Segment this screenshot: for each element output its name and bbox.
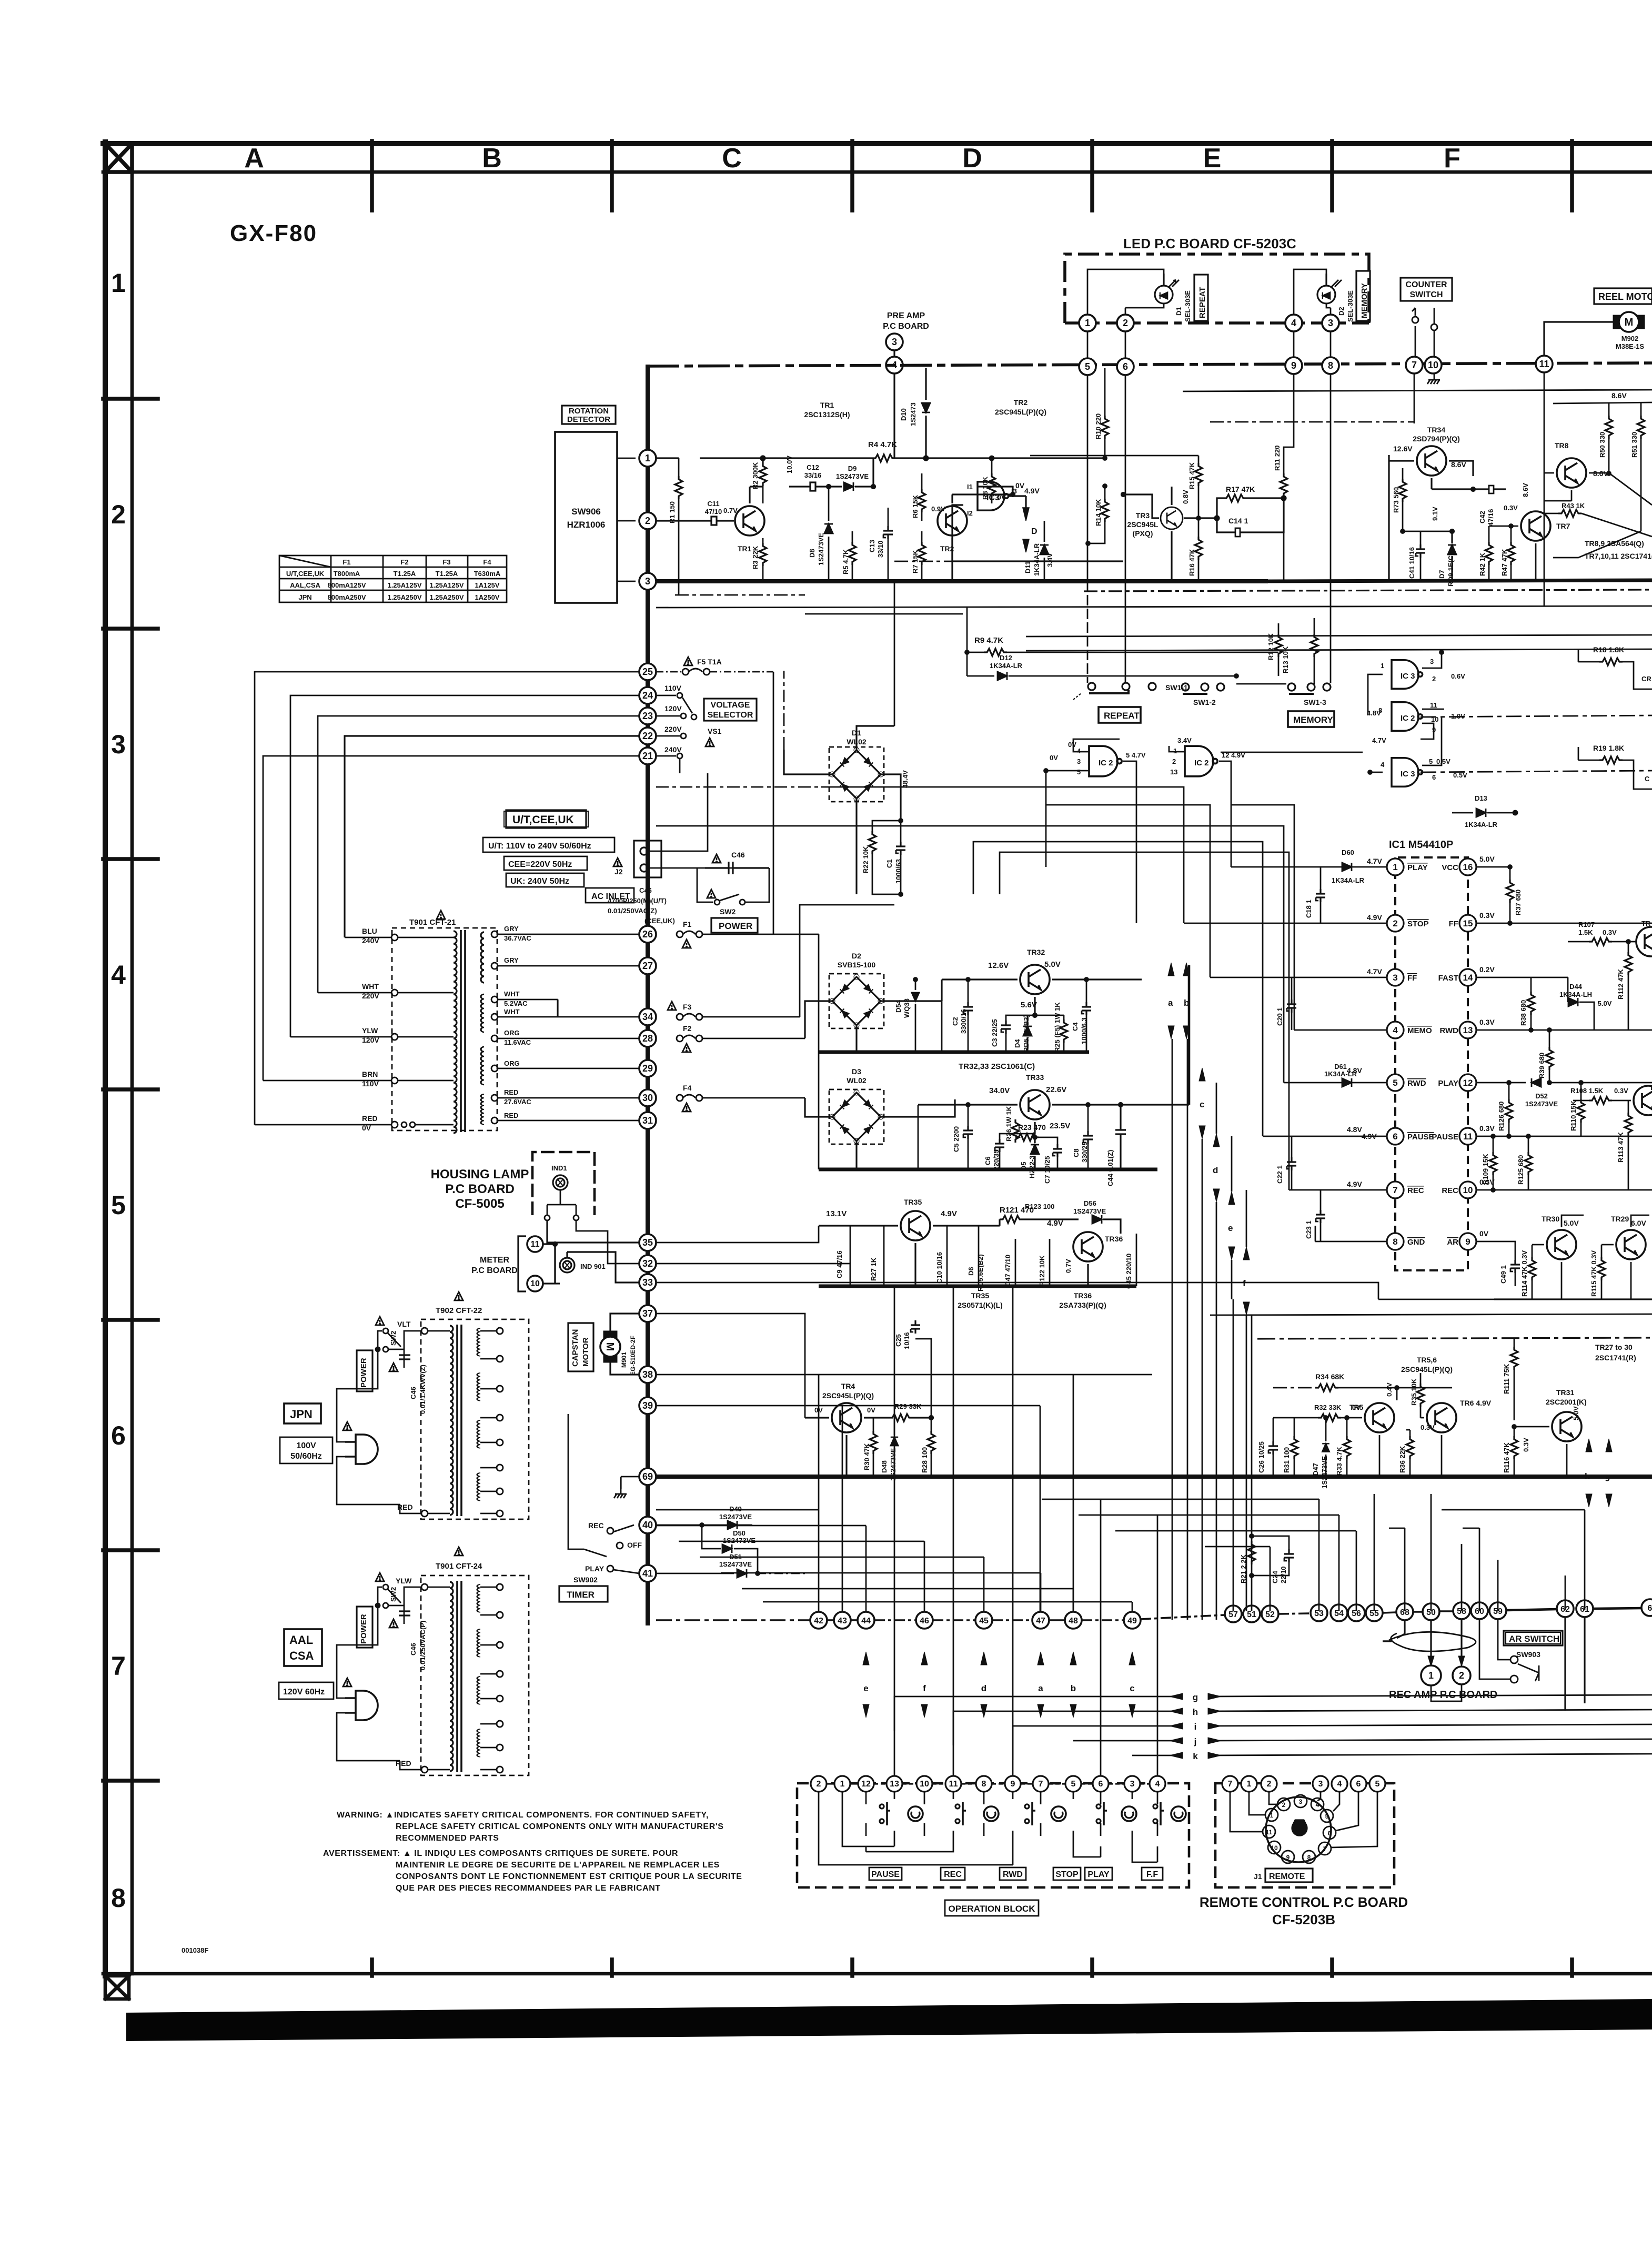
- svg-text:CSA: CSA: [289, 1649, 314, 1662]
- svg-text:30: 30: [642, 1093, 653, 1103]
- wire net b vertical: [1187, 1039, 1188, 1620]
- reel motor M902: [1613, 312, 1645, 332]
- svg-text:h: h: [1585, 1471, 1590, 1481]
- wire y2500: [1210, 1314, 1652, 1315]
- svg-text:29: 29: [642, 1063, 653, 1074]
- svg-text:TR7,10,11 2SC1741(R): TR7,10,11 2SC1741(R): [1585, 552, 1652, 560]
- svg-text:0.7V: 0.7V: [1064, 1259, 1072, 1273]
- IC1 inner pins: [1459, 859, 1476, 1250]
- svg-text:13: 13: [1463, 1025, 1473, 1035]
- svg-text:46: 46: [920, 1617, 929, 1625]
- svg-text:1K34A-LR: 1K34A-LR: [1324, 1070, 1357, 1078]
- svg-text:R15 47K: R15 47K: [1188, 462, 1196, 489]
- corner cross box bottom-left: [105, 1976, 129, 1999]
- svg-text:(PXQ): (PXQ): [1133, 529, 1153, 538]
- transistor TR36: [1073, 1232, 1103, 1261]
- svg-text:15: 15: [1463, 918, 1473, 928]
- capstan motor label box: [568, 1323, 593, 1371]
- svg-text:B: B: [482, 143, 502, 174]
- C13 33/10: [888, 508, 889, 526]
- C25 10/16: [911, 1320, 920, 1334]
- svg-text:CEE=220V 50Hz: CEE=220V 50Hz: [508, 860, 572, 869]
- svg-text:43: 43: [838, 1617, 847, 1625]
- C3 22/25: [1001, 1021, 1011, 1034]
- svg-text:f: f: [1243, 1278, 1246, 1288]
- svg-text:BLU: BLU: [362, 927, 377, 935]
- svg-text:8: 8: [1328, 360, 1333, 371]
- svg-text:4: 4: [1077, 747, 1081, 755]
- svg-text:1K34A-LR: 1K34A-LR: [1332, 876, 1365, 884]
- frame top inner: [103, 170, 1652, 174]
- svg-text:R12 10K: R12 10K: [1267, 633, 1275, 660]
- svg-text:WL02: WL02: [847, 1076, 867, 1085]
- wire IC2 out vertical 3: [1231, 805, 1232, 867]
- wire pin6 column down: [1125, 458, 1126, 683]
- wire motor to 11: [1544, 322, 1613, 356]
- svg-text:R32 33K: R32 33K: [1314, 1403, 1342, 1411]
- svg-text:TR36: TR36: [1105, 1235, 1123, 1243]
- R116 47K: [1510, 1436, 1518, 1459]
- svg-text:0.3V: 0.3V: [1614, 1087, 1628, 1095]
- svg-text:FF: FF: [1449, 920, 1458, 928]
- top bus dash-dot: [648, 363, 1652, 366]
- svg-text:R31 100: R31 100: [1283, 1447, 1291, 1473]
- svg-text:3: 3: [645, 576, 650, 587]
- svg-text:f: f: [923, 1683, 926, 1693]
- svg-text:1.25A125V: 1.25A125V: [387, 581, 421, 589]
- bridge D2 SVB15-100: [829, 974, 884, 1028]
- wire 37 feed: [656, 1314, 805, 1418]
- svg-text:CONPOSANTS DONT LE FONCTION: CONPOSANTS DONT LE FONCTIONNEMENT EST CR…: [396, 1872, 742, 1881]
- svg-text:R39 680: R39 680: [1538, 1053, 1546, 1078]
- svg-text:SW903: SW903: [1516, 1650, 1540, 1659]
- svg-text:CF-5005: CF-5005: [455, 1197, 504, 1211]
- svg-text:MEMO: MEMO: [1407, 1026, 1432, 1035]
- svg-text:DETECTOR: DETECTOR: [567, 415, 610, 424]
- svg-text:22: 22: [642, 731, 653, 741]
- svg-text:R113 47K: R113 47K: [1617, 1132, 1625, 1163]
- 12.6V 5.0V labels: [988, 960, 1061, 1009]
- svg-text:2: 2: [111, 500, 126, 529]
- svg-text:7: 7: [1039, 1780, 1043, 1789]
- svg-text:e: e: [1228, 1223, 1233, 1233]
- svg-text:D54: D54: [894, 999, 902, 1013]
- svg-text:C24: C24: [1271, 1570, 1279, 1583]
- svg-text:1: 1: [1393, 862, 1397, 872]
- svg-text:48: 48: [1069, 1617, 1078, 1625]
- C4 1000/6.3: [1082, 1002, 1091, 1015]
- svg-text:7: 7: [1323, 1845, 1327, 1853]
- svg-text:39: 39: [642, 1400, 653, 1411]
- svg-text:1K34A-LR: 1K34A-LR: [1465, 821, 1498, 829]
- svg-text:9: 9: [1291, 360, 1296, 371]
- svg-text:4.9V: 4.9V: [1367, 913, 1382, 922]
- AAL plug: [345, 1691, 378, 1720]
- svg-text:11: 11: [1266, 1829, 1273, 1836]
- svg-text:TR3: TR3: [1136, 511, 1150, 520]
- transistor TR7: [1521, 511, 1550, 541]
- svg-text:1.25A125V: 1.25A125V: [429, 581, 464, 589]
- wire y2470: [1494, 1298, 1652, 1300]
- svg-text:R47 47K: R47 47K: [1500, 549, 1508, 576]
- R108 1.5K TR28: [1589, 1097, 1612, 1104]
- svg-text:C25: C25: [894, 1334, 902, 1347]
- D52: [1532, 1078, 1541, 1087]
- node wire TR1 top: [679, 456, 894, 503]
- transistor TR35: [901, 1211, 930, 1240]
- svg-text:11: 11: [1463, 1132, 1473, 1142]
- POWER box: [711, 918, 758, 933]
- svg-text:GX-F80: GX-F80: [230, 220, 317, 246]
- row tick 5|6: [103, 1318, 158, 1322]
- svg-text:16: 16: [1463, 862, 1473, 872]
- column tick B|C: [610, 141, 614, 210]
- IC2 gate left1: [1089, 746, 1122, 776]
- svg-text:RD5.6E(B2): RD5.6E(B2): [1022, 1015, 1030, 1052]
- diodes D49 D50 D51: [656, 1523, 805, 1576]
- svg-text:5: 5: [1429, 758, 1433, 765]
- svg-text:R115 47K 0.3V: R115 47K 0.3V: [1590, 1250, 1598, 1297]
- SW1-2: [1182, 683, 1224, 694]
- svg-text:7: 7: [1228, 1780, 1233, 1789]
- wire vertical bundle op columns: [894, 1286, 1157, 1776]
- svg-text:D13: D13: [1475, 794, 1487, 802]
- svg-text:47/16: 47/16: [1487, 509, 1495, 526]
- svg-text:1: 1: [1428, 1670, 1434, 1681]
- SW1-1: [1073, 683, 1156, 700]
- svg-text:J1: J1: [1254, 1872, 1262, 1881]
- svg-text:32: 32: [642, 1258, 653, 1269]
- svg-text:33/16: 33/16: [804, 471, 822, 479]
- svg-text:1K34A-LR: 1K34A-LR: [990, 662, 1023, 670]
- svg-text:IC 3: IC 3: [1401, 770, 1415, 779]
- R22 10K vertical: [872, 819, 903, 832]
- svg-text:C3 22/25: C3 22/25: [991, 1019, 999, 1047]
- svg-text:4.9V: 4.9V: [941, 1209, 957, 1218]
- svg-text:F1: F1: [343, 558, 350, 566]
- svg-text:41: 41: [642, 1568, 653, 1579]
- svg-text:F5 T1A: F5 T1A: [697, 658, 722, 666]
- svg-text:T1.25A: T1.25A: [436, 570, 458, 578]
- svg-text:C49 1: C49 1: [1499, 1265, 1507, 1284]
- svg-text:R2 300K: R2 300K: [751, 462, 759, 489]
- IC1 right voltages: [1479, 855, 1495, 1238]
- svg-text:VOLTAGE: VOLTAGE: [711, 701, 750, 710]
- T902 terminals: [421, 1328, 503, 1517]
- corner cross box top-left: [105, 144, 132, 172]
- svg-text:11: 11: [1539, 359, 1549, 369]
- capstan wires: [610, 1314, 639, 1375]
- frame outer left: [103, 142, 108, 1976]
- op switch wires: [819, 1792, 1157, 1865]
- svg-text:k: k: [1193, 1751, 1198, 1761]
- R126 680: [1505, 1099, 1513, 1123]
- svg-text:VS1: VS1: [708, 727, 722, 735]
- R35 10K vert: [1417, 1384, 1424, 1407]
- svg-text:REPEAT: REPEAT: [1104, 711, 1140, 721]
- svg-text:TR7: TR7: [1556, 522, 1570, 530]
- svg-text:4: 4: [1337, 1780, 1342, 1789]
- push switches: [880, 1802, 890, 1825]
- svg-text:GRY: GRY: [504, 925, 519, 933]
- svg-text:D: D: [1031, 527, 1037, 536]
- svg-text:D2: D2: [1337, 307, 1345, 316]
- wire ic1 rec feed: [1000, 852, 1289, 1190]
- svg-text:SW2: SW2: [720, 907, 736, 916]
- svg-text:23: 23: [642, 711, 653, 721]
- svg-text:RWD: RWD: [1439, 1026, 1458, 1035]
- svg-text:a: a: [1168, 998, 1173, 1008]
- wires J2 to selector: [648, 773, 768, 868]
- svg-text:R10 220: R10 220: [1094, 413, 1102, 439]
- wire rail8: [656, 786, 819, 788]
- JPN plug: [345, 1435, 378, 1464]
- black bar bottom: [126, 1999, 1652, 2041]
- svg-text:9: 9: [1286, 1854, 1290, 1861]
- svg-text:C46: C46: [731, 851, 745, 859]
- svg-text:12 4.9V: 12 4.9V: [1222, 751, 1245, 759]
- svg-text:24: 24: [642, 690, 653, 701]
- svg-text:GND: GND: [1407, 1238, 1425, 1247]
- svg-text:3: 3: [1077, 758, 1081, 765]
- D8 vertical: [828, 487, 830, 581]
- wire net f vertical: [1246, 1190, 1247, 1247]
- meter pc board: [471, 1256, 518, 1275]
- svg-text:0.5V: 0.5V: [1436, 758, 1450, 765]
- svg-text:R34 68K: R34 68K: [1315, 1372, 1344, 1381]
- wire pin5 column down: [1087, 581, 1089, 683]
- D7 RD9.1E zener: [1448, 545, 1456, 554]
- svg-text:57: 57: [1228, 1610, 1238, 1619]
- svg-text:28: 28: [642, 1033, 653, 1044]
- R29 33K h: [889, 1414, 912, 1421]
- thick feed vertical a/b: [1188, 965, 1191, 1105]
- svg-text:1.25A250V: 1.25A250V: [429, 593, 464, 601]
- svg-text:6: 6: [1648, 1604, 1652, 1613]
- svg-text:STOP: STOP: [1407, 920, 1429, 928]
- svg-text:R73 560: R73 560: [1392, 487, 1400, 513]
- R7 15K vertical: [921, 531, 923, 542]
- svg-text:UK: 240V 50Hz: UK: 240V 50Hz: [510, 877, 569, 886]
- capstan motor M901: [600, 1331, 620, 1362]
- svg-text:1.0V: 1.0V: [1451, 712, 1465, 720]
- svg-text:6: 6: [1099, 1780, 1103, 1789]
- svg-text:10: 10: [530, 1279, 540, 1288]
- svg-text:220V: 220V: [664, 725, 682, 733]
- JPN power switch SW2: [345, 1328, 421, 1389]
- column tick F|G: [1570, 141, 1574, 210]
- twisted pair: [1383, 1619, 1476, 1652]
- TR1 type label: [804, 401, 850, 419]
- svg-text:a: a: [1038, 1683, 1043, 1693]
- svg-text:g: g: [1605, 1471, 1610, 1481]
- svg-text:R3 22K: R3 22K: [751, 546, 759, 569]
- transformer T901 warning tri: [437, 911, 445, 919]
- svg-text:RECOMMENDED PARTS: RECOMMENDED PARTS: [396, 1834, 499, 1843]
- svg-text:CAPSTAN: CAPSTAN: [571, 1329, 580, 1367]
- R9 4.7K: [965, 608, 984, 676]
- svg-text:PRE AMP: PRE AMP: [887, 311, 925, 320]
- svg-text:TR33: TR33: [1026, 1073, 1044, 1082]
- svg-text:F2: F2: [683, 1024, 692, 1033]
- svg-text:C26 10/25: C26 10/25: [1257, 1441, 1265, 1473]
- row tick 6|7: [103, 1548, 158, 1552]
- connector 4 preamp: [886, 357, 903, 373]
- svg-text:T901 CFT-24: T901 CFT-24: [436, 1562, 482, 1571]
- connector 11 meter: [527, 1236, 543, 1252]
- R23 470 horizontal: [1034, 1134, 1036, 1137]
- R50 330 vertical: [1608, 402, 1610, 416]
- svg-text:REC: REC: [1407, 1186, 1424, 1195]
- svg-text:R116 47K: R116 47K: [1503, 1442, 1510, 1473]
- ground sym at 69: [620, 1477, 621, 1489]
- svg-text:C5 2200: C5 2200: [952, 1126, 960, 1152]
- rotation detector label box: [562, 406, 616, 424]
- svg-text:R37 680: R37 680: [1514, 890, 1522, 915]
- TR29: [1616, 1230, 1646, 1259]
- wire 35 right: [656, 1226, 1526, 1573]
- svg-text:4: 4: [1316, 1801, 1319, 1809]
- transistor TR34: [1417, 446, 1446, 476]
- housing lamp board box: [532, 1152, 595, 1215]
- rotation detector SW906 box: [555, 432, 617, 603]
- svg-text:C46: C46: [409, 1387, 417, 1399]
- bottom tick F|G: [1570, 1960, 1574, 1976]
- svg-text:6: 6: [1393, 1132, 1397, 1142]
- wire ic1 rwd feed: [1136, 826, 1284, 1083]
- svg-text:C41 10/16: C41 10/16: [1408, 547, 1416, 579]
- svg-text:IC 2: IC 2: [1194, 759, 1209, 768]
- R37 680: [1509, 867, 1511, 880]
- svg-text:TR35: TR35: [904, 1198, 922, 1206]
- IC3 input wire: [952, 505, 1123, 561]
- svg-text:0.7V: 0.7V: [723, 507, 738, 514]
- svg-text:45: 45: [979, 1617, 989, 1625]
- R17 47K + C14: [1217, 498, 1223, 518]
- svg-text:2S0571(K)(L): 2S0571(K)(L): [958, 1301, 1003, 1309]
- svg-text:D7: D7: [1438, 570, 1446, 579]
- TR5: [1365, 1403, 1394, 1432]
- svg-text:R35 10K: R35 10K: [1410, 1378, 1418, 1406]
- TR30: [1547, 1230, 1576, 1259]
- voltage selector box: [704, 699, 757, 721]
- LED board bottom dashed edge: [1065, 321, 1369, 325]
- wire 39 feed: [656, 1406, 842, 1418]
- svg-text:11.6VAC: 11.6VAC: [504, 1038, 531, 1046]
- svg-text:WHT: WHT: [504, 990, 520, 998]
- D12 1K34A-LR: [967, 675, 994, 677]
- svg-text:U/T,CEE,UK: U/T,CEE,UK: [286, 570, 325, 578]
- wire y2545 dashdot: [1257, 1338, 1652, 1339]
- svg-text:CF-5203B: CF-5203B: [1272, 1912, 1335, 1927]
- svg-text:R28 100: R28 100: [921, 1447, 929, 1473]
- TR35 type labels: [958, 1291, 1106, 1309]
- row links: [827, 1608, 1641, 1620]
- svg-text:330/25: 330/25: [1081, 1142, 1089, 1163]
- svg-text:C9 47/16: C9 47/16: [835, 1250, 843, 1278]
- svg-text:ORG: ORG: [504, 1029, 520, 1037]
- svg-text:8: 8: [1307, 1854, 1311, 1861]
- svg-text:R51 330: R51 330: [1630, 432, 1638, 458]
- svg-text:0.9V: 0.9V: [931, 505, 945, 513]
- svg-text:C46: C46: [639, 886, 652, 894]
- svg-text:7: 7: [111, 1651, 126, 1681]
- frame inner left: [130, 143, 134, 1974]
- svg-text:5.0V: 5.0V: [1044, 960, 1061, 969]
- svg-text:7: 7: [1393, 1185, 1397, 1195]
- OPERATION BLOCK label: [945, 1900, 1039, 1916]
- D4 RD5.6E zener: [1027, 1014, 1037, 1025]
- svg-text:1K34A-LR: 1K34A-LR: [1033, 543, 1041, 576]
- svg-text:IC 3: IC 3: [1401, 672, 1415, 681]
- svg-text:F3: F3: [442, 558, 450, 566]
- svg-text:4.8V: 4.8V: [1367, 709, 1381, 717]
- svg-text:8: 8: [1393, 1237, 1397, 1247]
- svg-text:LED P.C BOARD CF-5203C: LED P.C BOARD CF-5203C: [1123, 236, 1296, 251]
- bridge D3 WL02: [829, 1089, 884, 1144]
- svg-text:2: 2: [1432, 675, 1436, 683]
- svg-text:PLAY: PLAY: [1087, 1870, 1110, 1879]
- bottom tick B|C: [610, 1960, 614, 1976]
- TR34 wires: [1389, 455, 1473, 581]
- svg-text:9: 9: [1011, 1780, 1015, 1789]
- svg-text:11: 11: [1430, 701, 1437, 709]
- svg-text:5: 5: [1077, 768, 1081, 776]
- D10 diode vertical: [925, 368, 926, 458]
- svg-text:0.5V: 0.5V: [1453, 771, 1467, 779]
- svg-text:TR36: TR36: [1074, 1291, 1092, 1300]
- wire right 2870: [1442, 1509, 1585, 1511]
- svg-text:D12: D12: [1000, 654, 1012, 662]
- svg-text:M38E-1S: M38E-1S: [1616, 342, 1645, 350]
- svg-text:c: c: [1200, 1099, 1204, 1109]
- T901 primary coil: [454, 931, 457, 982]
- AAL 120V box: [279, 1682, 334, 1699]
- svg-text:SW1-2: SW1-2: [1193, 698, 1216, 706]
- svg-text:OFF: OFF: [627, 1541, 642, 1549]
- svg-text:TR8,9 2SA564(Q): TR8,9 2SA564(Q): [1585, 539, 1644, 548]
- svg-text:5: 5: [111, 1190, 126, 1220]
- svg-text:D11: D11: [1024, 561, 1032, 573]
- svg-text:2SD794(P)(Q): 2SD794(P)(Q): [1413, 435, 1459, 443]
- svg-text:TR34: TR34: [1427, 426, 1445, 434]
- IC3 output arrow D: [1008, 496, 1026, 513]
- svg-text:STOP: STOP: [1055, 1870, 1079, 1879]
- svg-text:3: 3: [1318, 1780, 1323, 1789]
- D13: [1452, 812, 1473, 814]
- fuse F1: [677, 931, 773, 937]
- REPEAT vertical box: [1194, 275, 1208, 321]
- wire rail2: [1026, 635, 1652, 637]
- svg-text:C8: C8: [1072, 1148, 1080, 1157]
- TR8 wires crossing: [1544, 473, 1652, 558]
- TIMER box: [559, 1586, 608, 1602]
- svg-text:4: 4: [1381, 761, 1385, 769]
- svg-text:C47 47/10: C47 47/10: [1004, 1255, 1012, 1286]
- svg-text:21: 21: [642, 751, 653, 761]
- svg-text:11: 11: [531, 1240, 540, 1249]
- svg-text:SW902: SW902: [573, 1576, 598, 1584]
- wire ic1 memo feed: [1231, 805, 1294, 1030]
- wire rail6: [1421, 771, 1652, 772]
- lamp IND901: [560, 1258, 575, 1273]
- bus connectors row: [1079, 356, 1553, 375]
- svg-text:PLAY: PLAY: [1438, 1079, 1458, 1088]
- svg-text:50/60Hz: 50/60Hz: [290, 1452, 322, 1461]
- wire bus 1: [656, 458, 700, 521]
- svg-text:1S2473VE: 1S2473VE: [719, 1560, 752, 1568]
- fuse table: [279, 556, 507, 602]
